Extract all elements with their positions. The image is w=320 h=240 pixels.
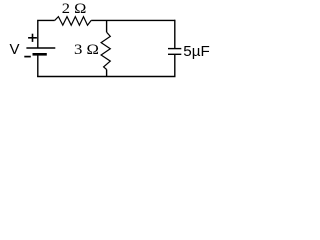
plus sign bbox=[28, 34, 37, 42]
svg-text:2 Ω: 2 Ω bbox=[62, 1, 87, 17]
wire right side lower bbox=[174, 54, 176, 77]
wire bottom bbox=[37, 76, 175, 78]
battery V1 positive plate bbox=[26, 47, 55, 49]
capacitor C1 bottom plate bbox=[168, 53, 181, 55]
resistor R1 2ohm zigzag bbox=[55, 17, 91, 26]
svg-text:V: V bbox=[10, 41, 20, 58]
wire top left segment bbox=[38, 20, 55, 48]
wire top right segment bbox=[91, 19, 175, 21]
capacitor C1 top plate bbox=[168, 48, 181, 50]
wire left side lower bbox=[37, 55, 39, 77]
svg-text:5µF: 5µF bbox=[183, 43, 209, 60]
wire middle branch lower bbox=[106, 70, 108, 77]
wire right side upper bbox=[174, 20, 176, 48]
wire middle branch upper bbox=[106, 20, 108, 32]
svg-text:3 Ω: 3 Ω bbox=[74, 42, 99, 58]
minus sign bbox=[24, 56, 31, 58]
battery V1 negative plate bbox=[33, 53, 47, 56]
resistor R2 3ohm zigzag bbox=[101, 32, 110, 69]
